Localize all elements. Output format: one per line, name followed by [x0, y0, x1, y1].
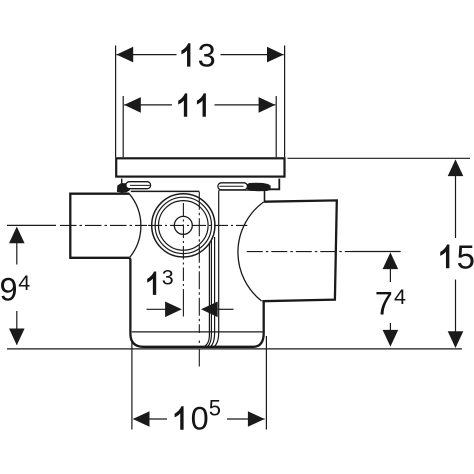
trap insert outer circle [152, 194, 215, 257]
wire: extension line left of dim 11 [122, 96, 124, 157]
node: vertical centerline of drop pipe [198, 192, 200, 333]
arrowhead left-pointing of dim 1.3 [201, 302, 218, 318]
arrowhead right of dim 11 [259, 97, 276, 113]
label 13 digit 1 [181, 43, 190, 66]
arrowhead down of dim 9.4 [9, 329, 25, 346]
svg-text:0: 0 [191, 401, 209, 437]
left inlet pipe [70, 194, 129, 258]
right outlet pipe [262, 200, 337, 301]
arrowhead down of dim 15 [448, 331, 464, 348]
wire: extension line right of dim 13 [284, 46, 286, 158]
svg-text:4: 4 [394, 285, 406, 309]
dimension 1.3 line [147, 308, 167, 310]
left seal (black wedge) [117, 183, 130, 192]
left clamp pin (rounded tab) [126, 182, 151, 189]
arrowhead right of dim 13 [267, 47, 284, 63]
label 11 first digit [178, 93, 187, 116]
dimension 9.4 line [16, 228, 18, 265]
trap insert middle circle [155, 197, 211, 253]
bell top edge [131, 190, 200, 192]
label 15 digit 1 [440, 245, 449, 269]
dimension 10.5 line [134, 418, 168, 420]
inner bottom line [132, 331, 263, 333]
svg-text:3: 3 [162, 265, 174, 289]
wire: top reference line for dim 9.4 (pipe centerline stub) [7, 224, 56, 226]
drop pipe wall line A [214, 191, 219, 347]
bell-pipe intersection arc left [129, 194, 141, 258]
dimension 7.4 line [389, 254, 391, 282]
dimension 13 line [117, 54, 177, 56]
svg-text:5: 5 [457, 238, 474, 275]
trap insert inner ring [159, 201, 209, 251]
node: centerline of left pipe (horizontal dash-dot) [60, 224, 147, 226]
right bell shoulder edge [264, 189, 266, 201]
left step under flange [121, 179, 123, 184]
dimension 15 line [455, 161, 457, 239]
arrowhead right-pointing of dim 1.3 [165, 302, 182, 318]
svg-text:5: 5 [209, 395, 221, 420]
svg-text:9: 9 [0, 272, 18, 308]
wire: top reference line for dim 15 [288, 157, 471, 159]
svg-text:7: 7 [375, 285, 393, 321]
arrowhead left of dim 13 [117, 47, 134, 63]
label 1 of dim 1.3 [147, 272, 156, 295]
node: vertical centerline of trap bell [182, 203, 184, 302]
right clamp pin (rounded tab) [218, 183, 248, 190]
right seal (black wedge) [246, 183, 271, 192]
label 10 digit 1 [175, 406, 184, 429]
bell-pipe intersection arc right [238, 202, 264, 301]
node: centerline of right pipe (horizontal dash-dot) [247, 251, 352, 253]
drop pipe wall line C [207, 241, 212, 348]
label 11 second digit [197, 93, 206, 116]
lower body outline [129, 258, 263, 347]
left clamp pin mid line [130, 184, 150, 186]
arrowhead left of dim 11 [124, 97, 141, 113]
arrowhead left of dim 10.5 [133, 411, 150, 427]
right step under flange [265, 179, 279, 190]
arrowhead up of dim 7.4 [383, 252, 399, 269]
wire: extension line left of dim 10.5 [131, 341, 133, 430]
dimension 11 line [124, 104, 172, 106]
arrowhead up of dim 9.4 [9, 227, 25, 244]
drop pipe wall line B [210, 237, 214, 347]
right clamp pin mid line [220, 185, 244, 187]
drop pipe wall line D [203, 244, 209, 348]
svg-text:3: 3 [198, 38, 216, 74]
flange top plate [116, 158, 284, 176]
arrowhead right of dim 10.5 [248, 411, 265, 427]
trap insert center hole [174, 216, 192, 234]
svg-text:4: 4 [18, 271, 30, 295]
arrowhead down of dim 7.4 [383, 330, 399, 347]
wire: extension line left of dim 13 [115, 46, 117, 158]
wire: extension line right of dim 10.5 [265, 336, 267, 430]
arrowhead up of dim 15 [448, 159, 464, 176]
wire: top reference line for dim 7.4 [352, 251, 401, 253]
wire: extension line right of dim 11 [275, 96, 277, 157]
right clamp pin underline [219, 189, 266, 191]
wire: bottom reference line (full width) [7, 348, 462, 350]
